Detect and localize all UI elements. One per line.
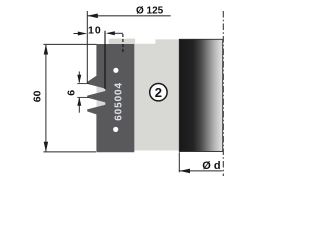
dimension Ø125: arrow <box>87 14 98 19</box>
dimension 10: left arrowhead <box>78 32 87 36</box>
dimension 6: upper arrowhead (down) <box>77 75 81 84</box>
dimension Ø125: line <box>87 15 170 17</box>
dimension 10: extension line <box>104 31 106 89</box>
dimension 60: bottom arrowhead <box>44 142 48 152</box>
dimension 60: top extension line <box>43 43 96 45</box>
dimension 10: right arrow line <box>108 32 123 34</box>
svg-text:Ø 125: Ø 125 <box>136 6 164 17</box>
position balloon 2: circle <box>150 84 167 101</box>
dimension Ød: line <box>179 170 222 172</box>
dimension Ød: arrowhead <box>180 169 190 174</box>
dimension 60: vertical line <box>45 45 47 151</box>
dimension Ø125: extension line <box>86 11 88 83</box>
bore block (gradient) <box>179 39 222 151</box>
dimension 6: upper line <box>78 72 80 83</box>
dimension 60: bottom extension line <box>43 151 96 153</box>
dimension 10: right arrowhead <box>106 31 115 35</box>
centerline (axis, dash-dot) <box>222 11 224 176</box>
dimension 6: lower arrowhead (up) <box>77 97 81 106</box>
dimension 60: top arrowhead <box>44 44 48 54</box>
dimension 10: left arrow line <box>74 33 86 35</box>
dimension 10: dashed line <box>122 34 124 53</box>
svg-text:10: 10 <box>88 24 102 36</box>
hole upper <box>113 68 118 73</box>
svg-text:605004: 605004 <box>113 82 124 121</box>
svg-text:6: 6 <box>66 90 78 96</box>
dimension 6: upper tick <box>77 83 89 85</box>
dimension 6: lower tick <box>77 96 89 98</box>
dimension 6: lower line <box>78 98 80 113</box>
svg-text:2: 2 <box>155 85 162 100</box>
tool body (light gray) <box>97 39 180 151</box>
svg-text:60: 60 <box>31 90 43 102</box>
hole lower <box>113 127 118 132</box>
knife body (dark, serrated left edge) <box>87 44 134 152</box>
dimension Ød: extension line <box>178 152 180 172</box>
svg-text:Ø d: Ø d <box>202 160 220 172</box>
